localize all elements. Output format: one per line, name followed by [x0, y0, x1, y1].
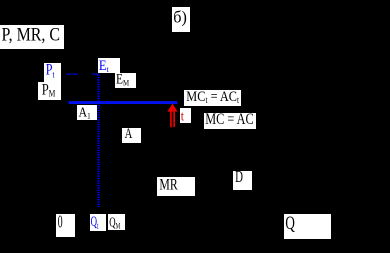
marginal revenue label MR: [157, 177, 195, 196]
demand label D: [233, 171, 252, 191]
point label A1: [77, 105, 97, 120]
solid blue line MCt = ACt: [69, 101, 178, 104]
quantity label QM: [108, 214, 126, 230]
price label Pt (blue): [44, 63, 61, 82]
cost curve label MCt = ACt: [184, 90, 241, 106]
red arrow shaft left stroke: [170, 112, 172, 128]
red arrow head (tax shift t): [167, 104, 177, 112]
price label PM: [38, 82, 61, 101]
axis label Q: [284, 214, 331, 239]
dotted guide from Et down to Qt: [97, 75, 99, 208]
equilibrium point label EM: [115, 73, 137, 88]
axis label box "P, MR, C": [0, 25, 64, 49]
cost curve label MC = AC: [204, 113, 257, 129]
panel label box "б)": [172, 7, 190, 32]
equilibrium point label Et (blue): [98, 58, 120, 73]
point label A: [122, 128, 142, 144]
quantity label Qt (blue): [90, 214, 106, 230]
dotted guide from Pt to Et, right segment: [92, 73, 99, 75]
origin label 0: [56, 214, 74, 238]
red arrow shaft right stroke: [173, 112, 175, 128]
tax label t (red): [180, 108, 192, 124]
dotted guide from Pt to Et, left segment: [67, 73, 79, 75]
